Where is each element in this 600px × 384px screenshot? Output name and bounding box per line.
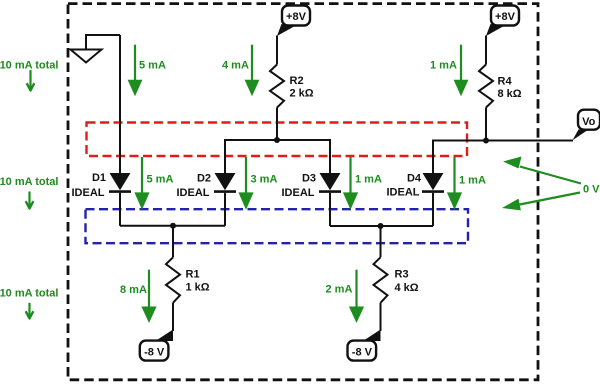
junction R3/node — [378, 223, 384, 229]
svg-text:4 kΩ: 4 kΩ — [395, 282, 419, 294]
resistor R4 — [479, 65, 493, 108]
svg-text:10 mA total: 10 mA total — [0, 288, 58, 300]
annotation 10 mA total (bottom) — [0, 288, 58, 319]
resistor R1 — [166, 257, 180, 303]
wire R2 lead up — [276, 36, 278, 65]
wire R4 lead up — [485, 36, 487, 65]
svg-text:IDEAL: IDEAL — [177, 187, 210, 199]
svg-text:D1: D1 — [92, 172, 106, 184]
svg-text:-8 V: -8 V — [144, 346, 165, 358]
junction R1/node — [170, 223, 176, 229]
wire R3 lead down — [380, 303, 382, 331]
svg-text:10 mA total: 10 mA total — [0, 60, 58, 72]
outer dashed border — [68, 4, 538, 380]
node A: R2 output node wire (D2-D3) — [225, 140, 330, 173]
current arrow 1 mA (D4) — [447, 157, 486, 210]
-8 V source label (R1) — [140, 330, 173, 361]
wire R3 lead up — [380, 226, 382, 257]
svg-text:D4: D4 — [407, 173, 422, 185]
Vo output label — [573, 110, 600, 141]
svg-text:0 V: 0 V — [583, 184, 600, 196]
svg-text:+8V: +8V — [286, 11, 307, 23]
wire R4 lead down — [485, 108, 487, 141]
+8V source label (R2) — [277, 6, 310, 37]
svg-text:10 mA total: 10 mA total — [0, 176, 58, 188]
svg-text:4 mA: 4 mA — [222, 60, 249, 72]
diode D2 — [214, 173, 236, 226]
ground — [71, 50, 102, 63]
svg-text:2 mA: 2 mA — [326, 284, 353, 296]
svg-text:8 kΩ: 8 kΩ — [498, 88, 522, 100]
resistor R3 — [374, 257, 388, 303]
svg-text:+8V: +8V — [495, 11, 516, 23]
wire R1 lead up — [172, 226, 174, 257]
junction R4/output — [483, 138, 489, 144]
junction R2/node — [274, 137, 280, 143]
svg-text:1 kΩ: 1 kΩ — [186, 282, 210, 294]
wire R1 lead down — [172, 303, 174, 331]
diode D3 — [319, 173, 341, 226]
svg-text:IDEAL: IDEAL — [387, 187, 420, 199]
+8V source label (R4) — [486, 6, 519, 37]
current arrow 5 mA (top) — [128, 45, 166, 97]
svg-text:5 mA: 5 mA — [147, 174, 174, 186]
svg-text:D3: D3 — [302, 173, 316, 185]
node Vo: output wire — [433, 141, 573, 174]
diode D1 — [109, 173, 131, 226]
svg-text:R4: R4 — [498, 76, 513, 88]
svg-text:R1: R1 — [186, 269, 200, 281]
annotation 10 mA total (top) — [0, 60, 58, 91]
svg-text:R2: R2 — [290, 75, 304, 87]
svg-text:D2: D2 — [197, 173, 211, 185]
svg-text:2 kΩ: 2 kΩ — [290, 88, 314, 100]
-8 V source label (R3) — [348, 330, 381, 361]
svg-text:-8 V: -8 V — [352, 346, 373, 358]
svg-text:1 mA: 1 mA — [459, 175, 486, 187]
current arrow 3 mA (D2) — [238, 157, 277, 210]
red dashed node box — [87, 123, 468, 157]
svg-text:IDEAL: IDEAL — [72, 187, 105, 199]
svg-text:IDEAL: IDEAL — [282, 187, 315, 199]
current arrow 1 mA (top) — [430, 45, 468, 97]
annotation 10 mA total (middle) — [0, 176, 58, 209]
current arrow 1 mA (D3) — [343, 157, 382, 210]
svg-text:1 mA: 1 mA — [355, 174, 382, 186]
node C: right bottom node wire (D3-D4 to R3) — [330, 225, 433, 227]
svg-text:3 mA: 3 mA — [251, 174, 278, 186]
wire ground stem to D1 branch — [86, 35, 120, 50]
diode D4 — [422, 173, 444, 226]
blue dashed node box — [86, 209, 469, 243]
node B: left bottom node wire (D1-D2 to R1) — [120, 225, 225, 227]
svg-text:5 mA: 5 mA — [139, 60, 166, 72]
current arrow 4 mA (top) — [222, 45, 259, 97]
wire R2 lead down — [276, 108, 278, 141]
svg-text:8 mA: 8 mA — [120, 284, 147, 296]
svg-text:R3: R3 — [395, 269, 409, 281]
resistor R2 — [270, 65, 284, 108]
svg-text:1 mA: 1 mA — [430, 60, 457, 72]
svg-text:Vo: Vo — [582, 116, 596, 128]
current arrow 8 mA (R1) — [120, 270, 157, 323]
wire D1 branch down — [119, 35, 121, 173]
annotation 0 V with pointer arrows — [502, 157, 600, 211]
current arrow 2 mA (R3) — [326, 270, 365, 323]
current arrow 5 mA (D1) — [134, 157, 173, 210]
